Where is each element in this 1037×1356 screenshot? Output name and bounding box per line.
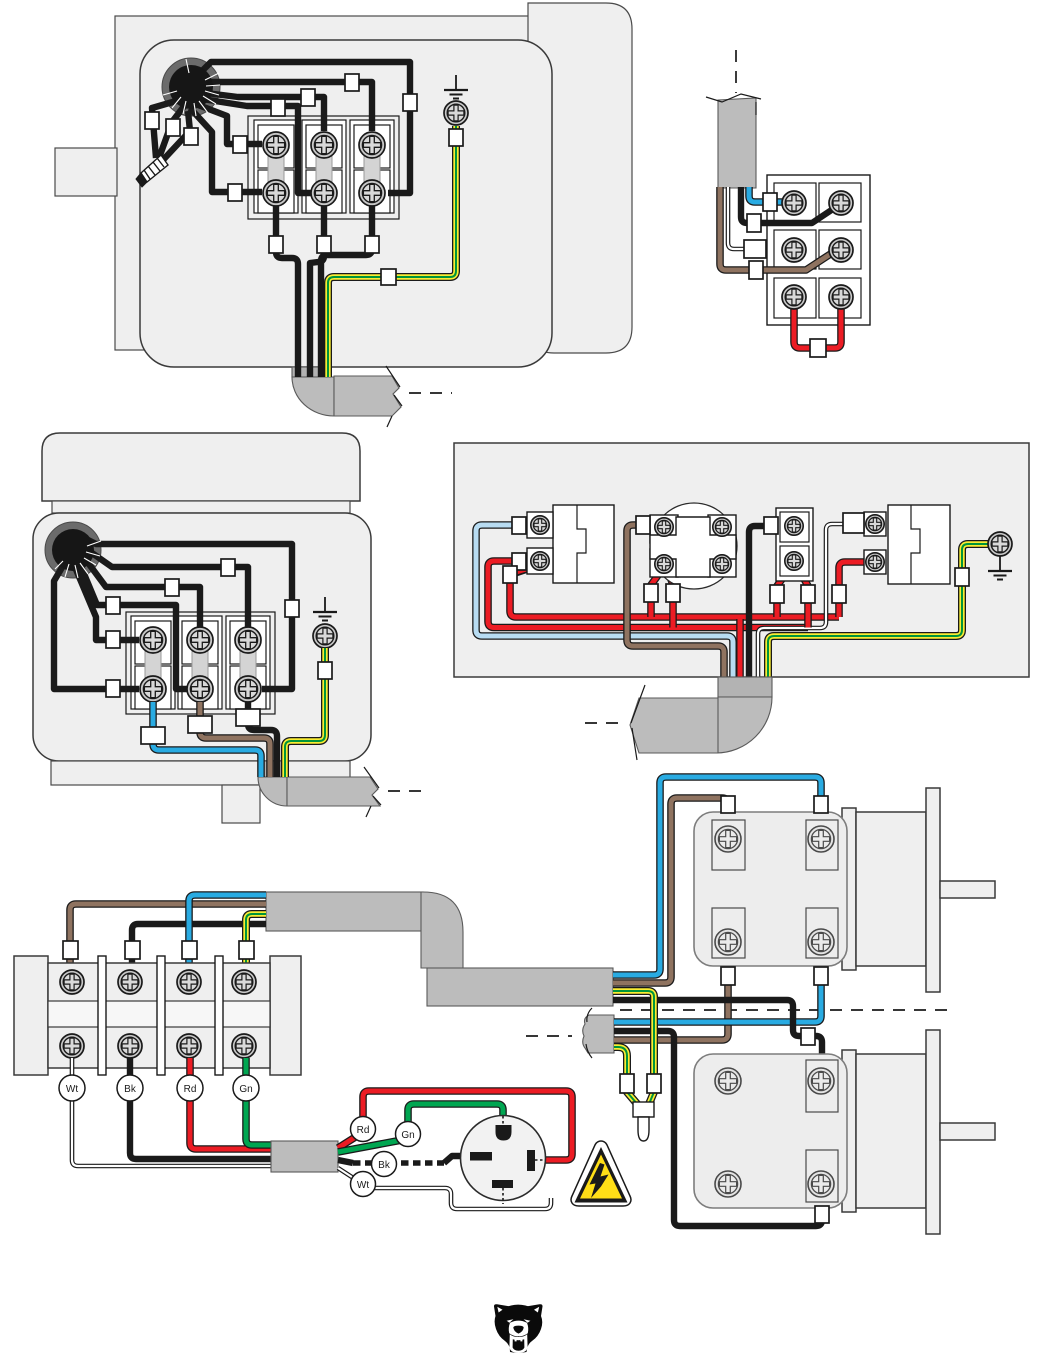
overload red leg 2 (798, 568, 808, 628)
svg-text:Gn: Gn (401, 1130, 414, 1141)
relay1 red diagonal (513, 566, 536, 573)
bottom flange (51, 761, 350, 785)
crimp ferrule (633, 1102, 654, 1117)
torn stub lines (586, 1008, 592, 1058)
bear mouth interior (513, 1339, 525, 1351)
motor1 end plate (926, 788, 940, 992)
terminal strip 3 (350, 120, 394, 213)
black output wire (130, 1058, 271, 1159)
black wire (741, 187, 833, 223)
motor1 body (856, 812, 926, 966)
terminal strip 1 (131, 616, 175, 709)
terminal block outline (126, 612, 275, 714)
brown feed wire (70, 904, 266, 970)
wire markers (763, 193, 777, 211)
wire markers mid-left box (285, 600, 299, 617)
wire M1 (hub to bottom-right screw) (80, 536, 292, 689)
bear teeth (515, 1339, 517, 1341)
conduit elbow down-left (716, 697, 772, 753)
red drop to conduit (736, 617, 744, 679)
conduit arm with arrow end (630, 698, 718, 753)
dashed continuation (409, 392, 452, 394)
relay 1 (left switch) (527, 505, 614, 583)
wire T2 (hub to top-right screw) (198, 82, 372, 131)
feed wire markers (63, 941, 78, 959)
blue wire upper (stub to motor1 top-right screw) (613, 777, 821, 975)
dotted connection lines (502, 1116, 504, 1126)
wire T6 (hub to bottom-left screw) (190, 108, 262, 192)
black wire (upper stub to motor2 top-right screw) (613, 1000, 822, 1066)
terminal strip 3 (226, 616, 270, 709)
brown wire (720, 187, 832, 270)
svg-text:Wt: Wt (357, 1180, 369, 1191)
ground screw (444, 101, 468, 125)
red plug wire (338, 1091, 572, 1160)
black exit wire (248, 702, 277, 777)
bottom blade slot (492, 1180, 513, 1188)
motor1 flange (842, 808, 856, 970)
separator strips (98, 956, 106, 1075)
blue wire lower (motor1 bottom-right screw to lower stub) (614, 954, 821, 1022)
brown wire lower (motor1 bottom-left screw to lower stub) (614, 954, 728, 1040)
control box wire markers (512, 517, 526, 534)
motor2 flange (842, 1050, 856, 1212)
torn conduit lines (631, 685, 645, 760)
receptacle face (461, 1116, 546, 1201)
motor1 screw pads (712, 820, 745, 870)
junction box side tab (55, 148, 117, 196)
white wire (758, 524, 843, 679)
motor2 screw pads (806, 1060, 838, 1112)
bear head with ears (494, 1304, 543, 1353)
motor1 junction box (694, 812, 847, 966)
wire T4 (hub to bottom-middle screw) (196, 98, 311, 193)
contactor red leg 1 (651, 571, 661, 617)
contactor (650, 503, 737, 589)
wire M5 (hub to top-left screw) (72, 560, 139, 640)
lid step (52, 501, 350, 513)
cable entry hub ring (162, 58, 220, 116)
conduit arm with torn end (287, 777, 380, 806)
red bus wire 2 (488, 561, 808, 628)
white output wire (72, 1058, 271, 1166)
torn conduit edge lines (386, 366, 402, 427)
red bus wire 1 (510, 574, 839, 617)
bottom tab (222, 785, 260, 823)
bullet connector (638, 1117, 649, 1141)
motor lid (42, 433, 360, 501)
light blue wire (476, 525, 733, 679)
black exit wire 2 (310, 206, 324, 377)
top row screws (60, 970, 84, 994)
dashed cable continuation (735, 50, 737, 93)
conduit arm with torn end (334, 376, 401, 416)
svg-text:Wt: Wt (66, 1084, 78, 1095)
junction box body (33, 513, 371, 761)
control box panel (454, 443, 1029, 677)
wire markers top-left box (403, 94, 417, 111)
terminal block frame (767, 175, 870, 325)
S-conduit arm 2 (427, 968, 613, 1006)
S-conduit arm 1 (266, 892, 423, 931)
left blade slot (470, 1152, 492, 1161)
dashed continuation (585, 722, 626, 724)
ground exit wire (green/yellow) (285, 648, 325, 777)
red jumper wire (794, 308, 841, 348)
terminal strip 1 (254, 120, 298, 213)
wire M6 (hub to bottom-left screw) (54, 559, 139, 689)
lower conduit stub (583, 1015, 614, 1053)
wire to wirenut b1 (152, 99, 183, 158)
green/yellow feed wire (246, 914, 266, 970)
ground screw (313, 624, 337, 648)
motor wire markers (721, 796, 735, 813)
terminal block right end plate (270, 956, 301, 1075)
black exit wire 1 (276, 206, 298, 377)
motor 1 (694, 788, 995, 992)
svg-text:Rd: Rd (357, 1125, 370, 1136)
green plug wire (338, 1104, 503, 1152)
black plug wire (dashed) (338, 1160, 353, 1163)
terminal strip 2 (178, 616, 222, 709)
cable entry hub ring (45, 522, 101, 578)
motor 2 (694, 1030, 995, 1234)
wire M3 (hub to top-middle screw) (80, 552, 200, 627)
bear eyes (507, 1319, 514, 1322)
ground symbol (988, 556, 1012, 580)
terminal strip 2 (302, 120, 346, 213)
bottom row screws (60, 1034, 84, 1058)
torn conduit lines (364, 767, 381, 817)
screws (782, 191, 806, 215)
white plug wire (338, 1168, 551, 1209)
screws T1-T6 (263, 132, 289, 158)
wire M4 (hub to bottom-middle screw) (77, 557, 187, 689)
red output wire (190, 1058, 271, 1149)
motor2 shaft (940, 1123, 995, 1140)
S-conduit bend (421, 892, 463, 968)
brown wire (627, 525, 724, 679)
svg-text:Gn: Gn (239, 1084, 252, 1095)
body middle band (48, 1001, 270, 1027)
terminal block body (48, 963, 270, 1068)
green/yellow wire (upper stub to crimp) (613, 991, 654, 1104)
wire M2 (hub to top-right screw) (82, 546, 248, 627)
conduit elbow (258, 777, 287, 806)
wire to wirenut b3 (163, 111, 190, 160)
relay2 red wire (839, 562, 866, 617)
svg-text:Bk: Bk (378, 1160, 391, 1171)
warning triangle (571, 1141, 631, 1206)
motor1 shaft (940, 881, 995, 898)
conduit stub (bottom exit) (292, 367, 330, 377)
green/yellow ground wire (768, 544, 995, 679)
dashed stub continuation (526, 1035, 572, 1037)
bear mouth rim (teeth) (509, 1334, 527, 1353)
ground D-slot (496, 1125, 512, 1141)
green/yellow wire (lower stub to crimp) (614, 1047, 638, 1105)
torn sheath edge (706, 94, 761, 115)
bear muzzle (509, 1321, 529, 1337)
hub center (169, 65, 213, 109)
black exit wire 3 (321, 206, 372, 377)
green wire markers (620, 1074, 634, 1093)
hub center (52, 529, 94, 571)
motor2 body (856, 1054, 926, 1208)
ground symbol (313, 597, 337, 621)
cable sheath (conduit stub) (718, 98, 756, 188)
overload block (776, 508, 813, 581)
wire labels near plug (351, 1117, 421, 1197)
overload red leg 1 (777, 568, 790, 617)
wire to wirenut b2 (159, 105, 185, 158)
hub wire separations (163, 59, 220, 116)
dashed continuation (388, 790, 430, 792)
hub wire separations (55, 541, 101, 578)
cord sheath (271, 1141, 338, 1172)
wire labels Wt Bk Rd Gn (top run) (59, 1075, 259, 1101)
ground wire (green/yellow) (328, 126, 456, 377)
motor1 screws (715, 826, 741, 852)
bear inner ears (497, 1307, 502, 1313)
bear nose (513, 1326, 523, 1334)
white wire (728, 187, 744, 249)
junction box back panel (115, 16, 545, 350)
motor2 junction box (694, 1054, 847, 1208)
wire T3 (hub to top-middle screw) (198, 92, 324, 131)
svg-text:Rd: Rd (184, 1084, 197, 1095)
svg-text:Bk: Bk (124, 1084, 137, 1095)
black wire (749, 526, 764, 679)
blue feed wire (189, 895, 266, 970)
blue wire (749, 187, 782, 202)
brown wire upper (stub to motor1 top-left screw) (613, 798, 728, 983)
wirenut (taped bundle) (136, 155, 168, 187)
black loop (lower stub to motor2 bottom-right screw) (614, 1031, 822, 1226)
conduit stub below control box (718, 677, 772, 697)
junction box cover flap (528, 3, 632, 353)
junction box body (140, 40, 552, 367)
motor2 end plate (926, 1030, 940, 1234)
wire T5 (hub to top-left screw) (193, 103, 262, 144)
terminal cells (774, 183, 816, 222)
right blade slot (527, 1150, 535, 1171)
green output wire (246, 1058, 271, 1145)
relay 2 (right switch) (864, 505, 950, 584)
terminal block left end plate (14, 956, 48, 1075)
conduit stub (bottom-right exit) (258, 761, 286, 777)
conduit elbow (292, 377, 334, 416)
dashed separator line (620, 1009, 948, 1011)
wire T1 (hub to bottom-right screw) (195, 62, 410, 193)
blue exit wire (153, 702, 261, 777)
screws M1-M6 (140, 627, 166, 653)
contactor red leg 2 (668, 571, 673, 628)
motor2 screws (715, 1068, 741, 1094)
black feed wire (132, 924, 266, 970)
ground screw (988, 532, 1012, 556)
ground symbol (444, 75, 468, 99)
brown exit wire (200, 702, 270, 777)
terminal block outline (248, 116, 399, 219)
